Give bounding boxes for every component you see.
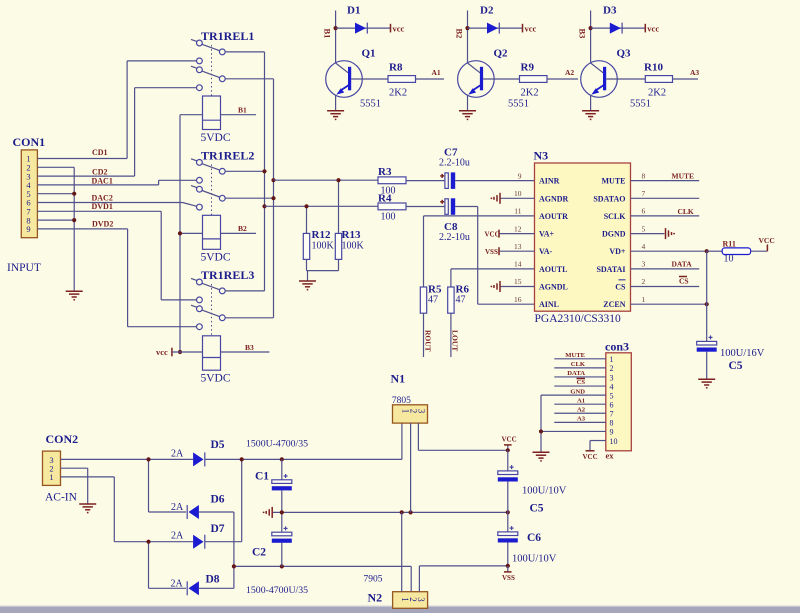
wire con3 pin5 (GND) (541, 394, 606, 396)
wire base to R8 (351, 78, 388, 80)
label D2 (480, 5, 494, 17)
resistor R11 10 (722, 248, 750, 255)
pin 5 DGND (N3 right) (602, 224, 664, 238)
wire net A2 (547, 78, 578, 80)
resistor R3 100 (378, 177, 406, 184)
label D3 (603, 5, 617, 17)
svg-text:VSS: VSS (485, 248, 498, 256)
svg-text:100: 100 (381, 212, 396, 223)
ground (Q1 emitter) (327, 111, 344, 120)
svg-text:Q2: Q2 (494, 48, 509, 60)
relay TR1REL1 label (201, 29, 254, 43)
label Q3 (617, 48, 632, 60)
svg-text:9: 9 (26, 224, 30, 234)
wire R12/R13 bottoms to ground (307, 271, 339, 281)
svg-text:C5: C5 (729, 360, 743, 372)
svg-text:47: 47 (428, 295, 438, 306)
pin 3 SDATAI (N3 right) (596, 260, 699, 274)
node junction C1 top (280, 457, 284, 461)
power port VCC (N3 pin12 VA+) (485, 230, 535, 239)
node bus junction REL2-NO2 (271, 196, 275, 200)
regulator N1 7805 (393, 405, 428, 423)
value 1500U-4700/35 (C1) (246, 439, 308, 450)
svg-text:MUTE: MUTE (602, 177, 626, 186)
wire coil B3 stub (221, 351, 270, 353)
svg-text:R8: R8 (389, 62, 403, 74)
svg-text:7: 7 (642, 189, 646, 198)
power port VSS (N3 pin13 VA-) (485, 247, 535, 256)
svg-text:100U/16V: 100U/16V (720, 348, 765, 359)
svg-text:1500-4700U/35: 1500-4700U/35 (246, 585, 308, 596)
label D8 (206, 574, 220, 586)
svg-text:VCC: VCC (583, 453, 598, 461)
svg-text:16: 16 (514, 295, 522, 304)
svg-text:SDATAI: SDATAI (596, 265, 625, 274)
pin 10 AGNDR (N3 left) (491, 189, 569, 204)
net label DVD1 (92, 202, 113, 211)
svg-text:LOUT: LOUT (451, 330, 460, 351)
power port VSS (supply output) (502, 566, 515, 582)
resistor R9 2K2 (520, 76, 548, 83)
pin 15 AGNDL (N3 left) (491, 277, 568, 292)
label con3 (605, 340, 629, 354)
svg-text:DATA: DATA (672, 259, 693, 268)
svg-text:VA+: VA+ (539, 230, 555, 239)
power port VCC (D1) (391, 24, 405, 34)
pin 2 CS (N3 right) (615, 277, 699, 291)
value 100U/10V (C6) (512, 554, 557, 565)
wire R3 to C7 (406, 180, 445, 182)
pin number 10 (con3) (610, 437, 618, 446)
svg-text:con3: con3 (605, 340, 629, 354)
net label A3 (690, 68, 699, 77)
capacitor C6 100U/10V (498, 512, 518, 566)
value 2A (D5) (171, 449, 184, 460)
label 5551 (508, 99, 529, 110)
svg-text:15: 15 (514, 277, 522, 286)
svg-text:TR1REL2: TR1REL2 (201, 149, 254, 163)
capacitor C8 2.2-10u (440, 198, 455, 215)
svg-text:AINL: AINL (539, 300, 559, 309)
svg-text:TR1REL1: TR1REL1 (201, 29, 254, 43)
value 100U/16V (C5) (720, 348, 765, 359)
svg-text:GND: GND (570, 388, 585, 395)
label C5 (16V) (729, 360, 743, 372)
svg-text:7905: 7905 (364, 575, 383, 585)
svg-text:5VDC: 5VDC (201, 132, 231, 144)
net label B2 (238, 224, 247, 233)
svg-text:10: 10 (514, 189, 522, 198)
resistor R10 2K2 (645, 76, 672, 83)
wire N3 pin11 to R5 (424, 216, 535, 287)
value 2K2 (648, 88, 666, 99)
svg-text:R12: R12 (312, 229, 331, 241)
node B2 junction (465, 26, 469, 30)
svg-text:100K: 100K (312, 241, 335, 252)
svg-text:MUTE: MUTE (565, 352, 585, 359)
wire relay NO bus (left channel) (225, 79, 274, 318)
value 47 (R5) (428, 295, 438, 306)
resistor R5 47 (420, 287, 426, 313)
wire raw- rail (D6/D8 anodes to N2 in) (199, 512, 411, 592)
label C8 (444, 221, 458, 233)
wire con3 pin1 (MUTE) (554, 358, 606, 360)
label C7 (444, 147, 458, 159)
svg-text:INPUT: INPUT (7, 262, 41, 274)
relay TR1REL2 actuator dashed line (211, 164, 213, 215)
svg-text:1: 1 (642, 295, 646, 304)
svg-text:100U/10V: 100U/10V (522, 486, 567, 497)
pin 12 VA+ (N3 left) (514, 224, 555, 238)
value 5VDC (201, 132, 231, 144)
svg-text:vcc: vcc (393, 24, 405, 34)
net label B3 (245, 343, 254, 352)
pin number 7 (con3) (610, 410, 614, 419)
svg-text:D5: D5 (211, 439, 225, 451)
svg-text:A3: A3 (690, 68, 699, 77)
svg-text:AOUTR: AOUTR (539, 212, 568, 221)
svg-text:B2: B2 (238, 224, 247, 233)
label C2 (252, 547, 266, 559)
node B1 junction (334, 26, 338, 30)
svg-text:4: 4 (642, 242, 646, 251)
capacitor C2 (272, 512, 292, 566)
net label DAC2 (92, 193, 113, 202)
net label A3 (con3) (577, 416, 586, 423)
svg-text:2K2: 2K2 (389, 88, 407, 99)
svg-text:A3: A3 (577, 416, 586, 423)
label D5 (211, 439, 225, 451)
diode D3 (610, 23, 622, 34)
diode D5 2A (193, 452, 205, 466)
label 7805 (392, 396, 411, 406)
svg-text:3: 3 (416, 597, 426, 602)
svg-text:CD1: CD1 (92, 148, 108, 157)
svg-text:CLK: CLK (678, 207, 694, 216)
bottom scrollbar band (0, 606, 800, 613)
relay TR1REL1 actuator dashed line (211, 45, 213, 96)
relay TR1REL1 coil 5VDC (203, 96, 221, 130)
svg-text:AGNDR: AGNDR (539, 194, 569, 203)
node junction N2 gnd pin (400, 510, 404, 514)
svg-text:2: 2 (610, 364, 614, 373)
svg-text:ROUT: ROUT (423, 330, 432, 352)
ground (N3 pin5 DGND, rotated) (666, 228, 676, 239)
svg-text:MUTE: MUTE (672, 171, 695, 180)
connector con3 (606, 353, 632, 451)
svg-text:R9: R9 (521, 62, 535, 74)
net label LOUT (451, 330, 460, 351)
label R3 (378, 166, 392, 178)
net label CS (con3) (577, 379, 586, 387)
svg-text:6: 6 (642, 207, 646, 216)
node junction con3 gnd (539, 429, 543, 433)
label R9 (521, 62, 535, 74)
svg-text:CD2: CD2 (92, 168, 108, 177)
label Q1 (362, 48, 376, 60)
svg-text:D3: D3 (603, 5, 617, 17)
pin number 3 (CON1) (26, 171, 30, 181)
node bus junction REL2-NO1 (262, 169, 266, 173)
pin number 2 (CON1) (26, 163, 30, 173)
op-amp U1 / IC N3 PGA2310/CS3310 body (535, 163, 631, 311)
svg-text:5551: 5551 (360, 99, 381, 110)
label C6 (527, 532, 541, 544)
svg-text:A1: A1 (432, 68, 441, 77)
wire C8 to N3 pin16 (455, 207, 534, 305)
svg-text:3: 3 (642, 260, 646, 269)
wire con3 pin4 (CS) (554, 385, 606, 387)
pin number 4 (CON1) (26, 180, 31, 190)
value 5VDC (201, 252, 231, 264)
wire net B3 collector line (590, 11, 592, 64)
capacitor C1 (272, 459, 292, 512)
net label DATA (con3) (567, 370, 585, 377)
svg-text:CS: CS (679, 276, 689, 285)
net label B1 (323, 29, 333, 39)
value 2.2-10u (C7) (439, 158, 470, 169)
wire con3 pin6 (A1) (554, 403, 606, 405)
svg-text:6: 6 (610, 401, 614, 410)
value 5VDC (201, 373, 231, 385)
value 2A (D6) (171, 502, 184, 513)
pin number 9 (CON1) (26, 224, 30, 234)
resistor R12 100K (303, 206, 309, 270)
net label DVD2 (92, 219, 113, 228)
wire R4 input line (265, 205, 379, 207)
relay TR1REL2 coil 5VDC (203, 215, 221, 249)
pin 1 ZCEN (N3 right) (603, 295, 706, 309)
node junction C5/C6 mid (506, 510, 510, 514)
wire CON1 ground rail (pins 2,5,8) (37, 167, 74, 290)
capacitor C7 2.2-10u (440, 172, 455, 189)
svg-text:3: 3 (610, 373, 614, 382)
node bus junction R4 feed (262, 204, 266, 208)
pin number 1 (con3) (610, 355, 614, 364)
svg-text:CS: CS (615, 283, 626, 292)
svg-text:8: 8 (610, 419, 614, 428)
label 5551 (630, 99, 651, 110)
pin number 2 (CON2) (49, 463, 53, 473)
wire GND mid rail (273, 511, 508, 513)
svg-text:VCC: VCC (485, 231, 500, 239)
pin number 3 (con3) (610, 373, 614, 382)
svg-text:Q3: Q3 (617, 48, 632, 60)
ground (Q2 emitter) (459, 111, 476, 120)
node B3 junction (589, 26, 593, 30)
svg-text:C5: C5 (530, 503, 544, 515)
ground (mid rail, rotated) (263, 507, 273, 518)
label CON1 (13, 135, 46, 149)
wire emitter to ground (335, 95, 337, 111)
net label B2 (455, 29, 465, 39)
ground (CON2) (79, 504, 96, 513)
wire net B1 collector line (335, 11, 337, 64)
svg-text:B3: B3 (578, 29, 588, 39)
svg-text:R3: R3 (378, 166, 392, 178)
node bus junction R3 feed (271, 178, 275, 182)
svg-text:SDATAO: SDATAO (593, 194, 625, 203)
net label MUTE (N3) (672, 171, 695, 180)
svg-text:5VDC: 5VDC (201, 252, 231, 264)
pin number 9 (con3) (610, 428, 614, 437)
wire DVD1 (pin7 to REL3 common A) (37, 211, 196, 300)
diode D1 (355, 23, 367, 34)
value 2K2 (521, 88, 539, 99)
wire R3 input line (274, 179, 379, 181)
svg-text:4: 4 (610, 382, 614, 391)
wire CD2 (pin3 to REL1 common B) (37, 88, 196, 176)
wire coil B2 stub (221, 232, 257, 234)
wire con3 pin7 (A2) (554, 412, 606, 414)
label R12 (312, 229, 331, 241)
power port vcc (relay coils) (156, 347, 202, 357)
svg-text:CON2: CON2 (46, 432, 79, 446)
svg-text:DGND: DGND (602, 230, 626, 239)
svg-text:DVD2: DVD2 (92, 219, 113, 228)
pin number 4 (con3) (610, 382, 614, 391)
transistor Q2 5551 (458, 61, 495, 98)
svg-text:10: 10 (610, 437, 618, 446)
wire N1 pin2 to gnd rail (410, 423, 412, 512)
transistor Q1 5551 (326, 61, 363, 98)
net label CS (N3) (679, 276, 689, 285)
wire net LOUT (450, 313, 452, 357)
node junction C2 bottom (280, 564, 284, 568)
svg-text:B2: B2 (455, 29, 465, 39)
svg-text:D6: D6 (211, 493, 225, 505)
net label DATA (N3) (672, 259, 693, 268)
label D6 (211, 493, 225, 505)
value 100K (R12) (312, 241, 335, 252)
label R10 (644, 62, 663, 74)
net label ROUT (423, 330, 432, 352)
svg-text:C1: C1 (255, 471, 269, 483)
svg-text:2A: 2A (171, 530, 184, 541)
node junction ZCEN (705, 302, 709, 306)
label CON2 (46, 432, 79, 446)
svg-text:R13: R13 (342, 229, 361, 241)
label N3 (534, 149, 549, 163)
resistor R6 47 (448, 287, 454, 313)
transistor Q3 5551 (581, 61, 618, 98)
wire emitter to ground (590, 95, 592, 111)
pin number 3 (CON2) (49, 455, 53, 465)
relay TR1REL3 label (201, 268, 254, 282)
wire DAC1 (pin4 to REL2 common A) (37, 180, 196, 185)
wire N2 pin3 to VSS (419, 566, 507, 592)
svg-text:5: 5 (610, 391, 614, 400)
wire N1 pin3 to VCC (418, 423, 507, 450)
svg-text:B3: B3 (245, 343, 254, 352)
svg-text:B1: B1 (238, 106, 247, 115)
wire emitter to ground (467, 95, 469, 111)
svg-text:VCC: VCC (759, 236, 775, 245)
svg-text:D7: D7 (211, 523, 225, 535)
svg-text:N3: N3 (534, 149, 549, 163)
wire diode D3 to VCC (591, 27, 645, 29)
svg-text:2K2: 2K2 (648, 88, 666, 99)
svg-text:100K: 100K (342, 241, 365, 252)
svg-text:7: 7 (610, 410, 614, 419)
wire relay NO bus (right channel) (225, 52, 265, 291)
pin number 2 (con3) (610, 364, 614, 373)
svg-text:2.2-10u: 2.2-10u (439, 232, 470, 243)
wire net ROUT (423, 313, 425, 357)
wire con3 pin3 (DATA) (554, 376, 606, 378)
svg-text:ZCEN: ZCEN (603, 300, 625, 309)
value 2K2 (389, 88, 407, 99)
relay TR1REL3 actuator dashed line (211, 284, 213, 336)
svg-text:5VDC: 5VDC (201, 373, 231, 385)
pin 9 AINR (N3 left) (518, 171, 560, 185)
ground (CON1) (66, 291, 83, 300)
svg-text:C2: C2 (252, 547, 266, 559)
relay TR1REL2 label (201, 149, 254, 163)
svg-text:TR1REL3: TR1REL3 (201, 268, 254, 282)
svg-text:D8: D8 (206, 574, 220, 586)
svg-text:PGA2310/CS3310: PGA2310/CS3310 (535, 313, 622, 325)
node junction VSS/C6 (506, 564, 510, 568)
svg-text:CS: CS (577, 379, 586, 386)
diode D6 2A (187, 505, 199, 519)
node junction pin5/gnd rail (72, 192, 76, 196)
net label B1 (238, 106, 247, 115)
ground (R12/R13) (299, 281, 316, 290)
svg-text:10: 10 (724, 254, 734, 265)
value 10 (R11) (724, 254, 734, 265)
node junction R13/R3 (336, 178, 340, 182)
svg-text:7805: 7805 (392, 396, 411, 406)
svg-text:N2: N2 (368, 591, 383, 605)
resistor R4 100 (378, 203, 406, 210)
svg-text:5551: 5551 (508, 99, 529, 110)
pin 14 AOUTL (N3 left) (514, 260, 567, 274)
label R5 (428, 284, 442, 296)
svg-text:vcc: vcc (156, 347, 168, 357)
value 47 (R6) (456, 295, 466, 306)
label ex (606, 451, 615, 461)
svg-text:VD+: VD+ (609, 247, 626, 256)
wire C7 to N3 pin9 (455, 180, 534, 182)
wire AC phase A (pin3 to D5/D6) (61, 459, 194, 512)
label N1 (391, 372, 406, 386)
label Q2 (494, 48, 509, 60)
net label MUTE (con3) (565, 352, 585, 359)
relay TR1REL3 coil 5VDC (203, 336, 221, 370)
pin number 8 (con3) (610, 419, 614, 428)
svg-text:B1: B1 (323, 29, 333, 39)
pin number 1 (CON2) (49, 472, 53, 482)
regulator N2 7905 (393, 592, 428, 609)
svg-text:5551: 5551 (630, 99, 651, 110)
wire VD+ rail down to C5 (706, 251, 708, 341)
label 5551 (360, 99, 381, 110)
net label DAC1 (92, 176, 113, 185)
power port VCC (D2) (523, 24, 537, 34)
wire net B2 collector line (467, 11, 469, 64)
label R6 (456, 284, 470, 296)
node junction R12/R4 (304, 204, 308, 208)
ground (con3) (533, 452, 550, 461)
svg-text:2A: 2A (171, 449, 184, 460)
label C1 (255, 471, 269, 483)
wire CD1 (CON1 pin1 to REL1 common A) (37, 61, 196, 159)
pin 16 AINL (N3 left) (514, 295, 559, 309)
net label CD1 (92, 148, 108, 157)
connector CON1 (21, 150, 37, 238)
capacitor C5 100U/16V (697, 335, 717, 378)
